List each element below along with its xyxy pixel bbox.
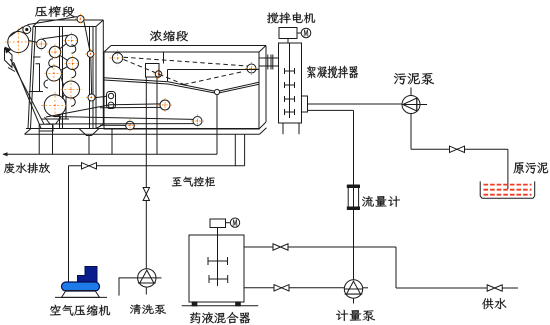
press inner right wall a [89,27,91,129]
feed inlet pipe [163,52,165,64]
flow meter body [348,185,358,210]
chute diagonal second [14,62,42,128]
belt guide arc 5 [71,98,75,107]
air line valve [82,163,97,169]
compressor base trapezoid [62,291,100,298]
drain drop from diagonal end [38,124,40,154]
label 流量计 (flow meter) [362,196,400,207]
press inner wall segment [65,94,67,119]
sludge pump upper stub [410,88,412,96]
press frame right bevel top [96,20,103,27]
water line upper valve [273,244,288,250]
polymer riser [353,110,355,279]
metering pump right stub [363,287,368,289]
mixer pipe flange d [272,55,274,70]
press inner right wall b [92,27,94,129]
label 压榨段 (press section) [35,6,75,17]
tension bracket [107,92,116,109]
compressor supply pipe [68,166,70,283]
conc box bottom bevel right [259,122,266,129]
vee vertex roller [214,89,219,94]
press frame top bevel left [33,20,40,27]
drain from vee vertex [216,95,218,155]
belt stub to lower-left roller [100,124,126,126]
label 絮凝搅拌器 (flocculation stirrer) [307,66,358,79]
roller R11 small [88,94,95,101]
vee belt upper right run [219,82,259,91]
conc box rear top edge [111,45,266,47]
conc box top bevel right [259,46,266,53]
chem mixer motor box [210,219,226,228]
floc mixer shaft [289,43,291,118]
conc roller right [247,64,256,73]
sludge suction line [308,103,403,105]
conc box rear right wall [265,46,267,123]
tank sludge dashes [484,184,532,186]
metering pump circle [344,280,362,298]
belt R12-R10 [84,22,90,51]
dashed belt to vee vertex [124,60,185,85]
bracket circle lower [108,102,114,108]
compressor motor block [78,267,98,284]
machine to mixer pipe bottom [260,65,279,67]
stirrer motor link [297,32,301,34]
belt guide arc 1 [72,45,76,54]
chem paddle lower [209,278,228,280]
press shelf under big roller [41,118,69,120]
water supply valve [487,285,502,291]
floc mixer leg left [282,123,284,134]
sludge pump right stub [420,104,427,106]
label 至气控柜 (to air control cabinet) [172,177,215,187]
chem mixer box [189,235,244,302]
chem mixer foot left [192,302,197,306]
compressor ground line [55,296,107,298]
mixer pipe flange c [270,55,272,70]
wastewater arrow tick [3,152,8,156]
roller R8 [63,81,80,98]
roller R2 with hub [23,26,31,34]
floc paddle 3 [285,98,295,100]
chute bottom slant [8,68,15,72]
conc box top bevel left [104,46,111,53]
water supply line [396,287,518,289]
chem mixer shaft [217,228,219,287]
press shelf under left [29,91,43,93]
label 污泥泵 (sludge pump) [394,73,434,85]
bracket circle upper [108,93,113,98]
roller R9 large [44,95,66,117]
belt R8-R9 [63,95,65,100]
label 供水 (water supply) [482,298,507,309]
drain drop from funnel R9 [52,124,54,154]
roller R4 [49,46,60,57]
press frame front face [28,27,96,129]
label 清洗泵 (cleaning pump) [130,304,166,314]
trough rim horizontal [168,69,260,71]
chem mixer motor link [226,222,231,224]
chem paddle upper [208,260,228,262]
vee belt lower right run [220,84,259,92]
label 搅拌电机 (stirrer motor) [267,12,315,23]
mixer pipe flange b [267,55,269,70]
press frame rear top edge [40,19,104,21]
press inner left wall [31,27,36,129]
label 药液混合器 (chemical mixer) [190,312,250,324]
funnel under press right [79,129,99,136]
air line riser b [244,134,246,166]
compressor tank [62,282,100,291]
vee belt lower left run [104,80,214,93]
drain drop x112 [111,129,113,155]
conc roller mid [160,100,170,110]
chem mixer foot right [236,302,241,306]
belt return to mid roller [46,104,160,117]
belt guide arc 3 [72,69,76,78]
press divider wall b [62,27,64,129]
water line riser [395,247,397,288]
conc roller lower-left [126,121,135,130]
belt R1-R2 [9,27,23,37]
conc box front face [104,52,259,129]
drain drop from right funnel [88,136,90,155]
machine base rail right slant [260,128,267,135]
raw sludge line horizontal [411,148,508,150]
label 空气压缩机 (air compressor) [50,305,110,316]
feed distribution box [146,64,160,78]
raw sludge tank [480,181,535,198]
label 废水排放 (wastewater discharge) [4,163,50,174]
roller R3 [37,39,46,48]
funnel under R9 [45,117,62,124]
air line horizontal [69,165,245,167]
chute filled tip [5,47,12,54]
drain from feed box right [156,77,158,154]
roller large R1 [8,32,29,53]
floc paddle 1 [285,70,295,72]
floc mixer vessel [279,43,302,123]
feed pipe down from feed box (to cleaning pump line) [145,77,147,269]
roller R12 top [77,16,84,23]
roller R6 [67,58,79,70]
belt R3-R5 [43,35,69,39]
water line to chem mixer [244,246,396,248]
press frame rear right wall [102,20,104,125]
chute panel [5,48,13,68]
press frame bottom bevel right [96,125,103,129]
polymer line to mixer [308,109,354,111]
conc roller lower-right [193,117,202,126]
cleaning pump below stub [145,287,147,295]
stirrer motor M circle [301,28,311,38]
dashed belt vee rise [184,72,244,85]
mixer pipe flange a [265,55,267,70]
wastewater discharge line [3,153,217,155]
roller R5 [66,35,78,47]
machine base rail lower [25,133,260,135]
stirrer motor box [279,28,297,39]
metering pump below stub [353,298,355,303]
raw sludge drop pipe [507,149,509,189]
belt R5-R4 [60,44,67,49]
sludge pump circle [402,96,420,114]
belt R6-R7 [61,67,68,71]
floc mixer outlet flange [302,96,308,112]
belt R1-R3 tangent [29,41,37,43]
air line riser a [234,134,236,166]
cleaning pump circle [138,269,156,287]
chem mixer M circle [230,218,239,227]
stirrer shaft upper [287,39,289,44]
press inner box around roller [36,64,40,92]
sludge pump down pipe [410,114,412,150]
machine base rail upper [26,128,260,130]
press shelf line upper left [33,56,41,58]
cleaning pump right stub [156,277,162,279]
belt R11-bracket [95,96,107,98]
metering pump left line [244,287,344,289]
conc roller small at feed box [155,71,161,77]
conc roller top-left [112,53,122,63]
machine base rail left slant [25,129,32,135]
label 计量泵 (metering pump) [336,310,375,321]
press divider wall a [59,27,61,129]
trough rim vertical [167,70,169,82]
belt return lower of mid roller [100,106,161,108]
belt guide arc 2 [49,59,53,68]
floc mixer leg right [298,123,300,134]
label 原污泥 (raw sludge) [514,162,549,174]
dashed belt upper run [124,57,248,66]
cake box at diagonal end [39,124,53,131]
label 浓缩段 (thickening section) [150,30,188,41]
belt guide arc 4 [44,80,48,88]
vee belt upper left run [104,78,215,91]
chute diagonal long [10,59,44,124]
belt R2-R12 [28,17,78,25]
floc paddle 2 [285,84,295,86]
cleaning line valve [143,188,149,201]
belt return to lower-right roller top [54,117,194,120]
belt return to lower-right roller bottom [46,123,193,125]
chem mixer ground line [182,305,259,307]
roller R7 [47,66,62,81]
belt R10-R11 [90,57,93,94]
machine to mixer pipe top [260,57,279,59]
cleaning pump suction corner [119,278,138,296]
belt R4-R6 [60,56,67,61]
roller R10 small [87,51,94,58]
raw sludge valve [450,146,465,152]
metering pump lower valve [274,285,289,291]
belt R7-R8 [61,77,64,86]
floc paddle 4 [285,111,295,113]
